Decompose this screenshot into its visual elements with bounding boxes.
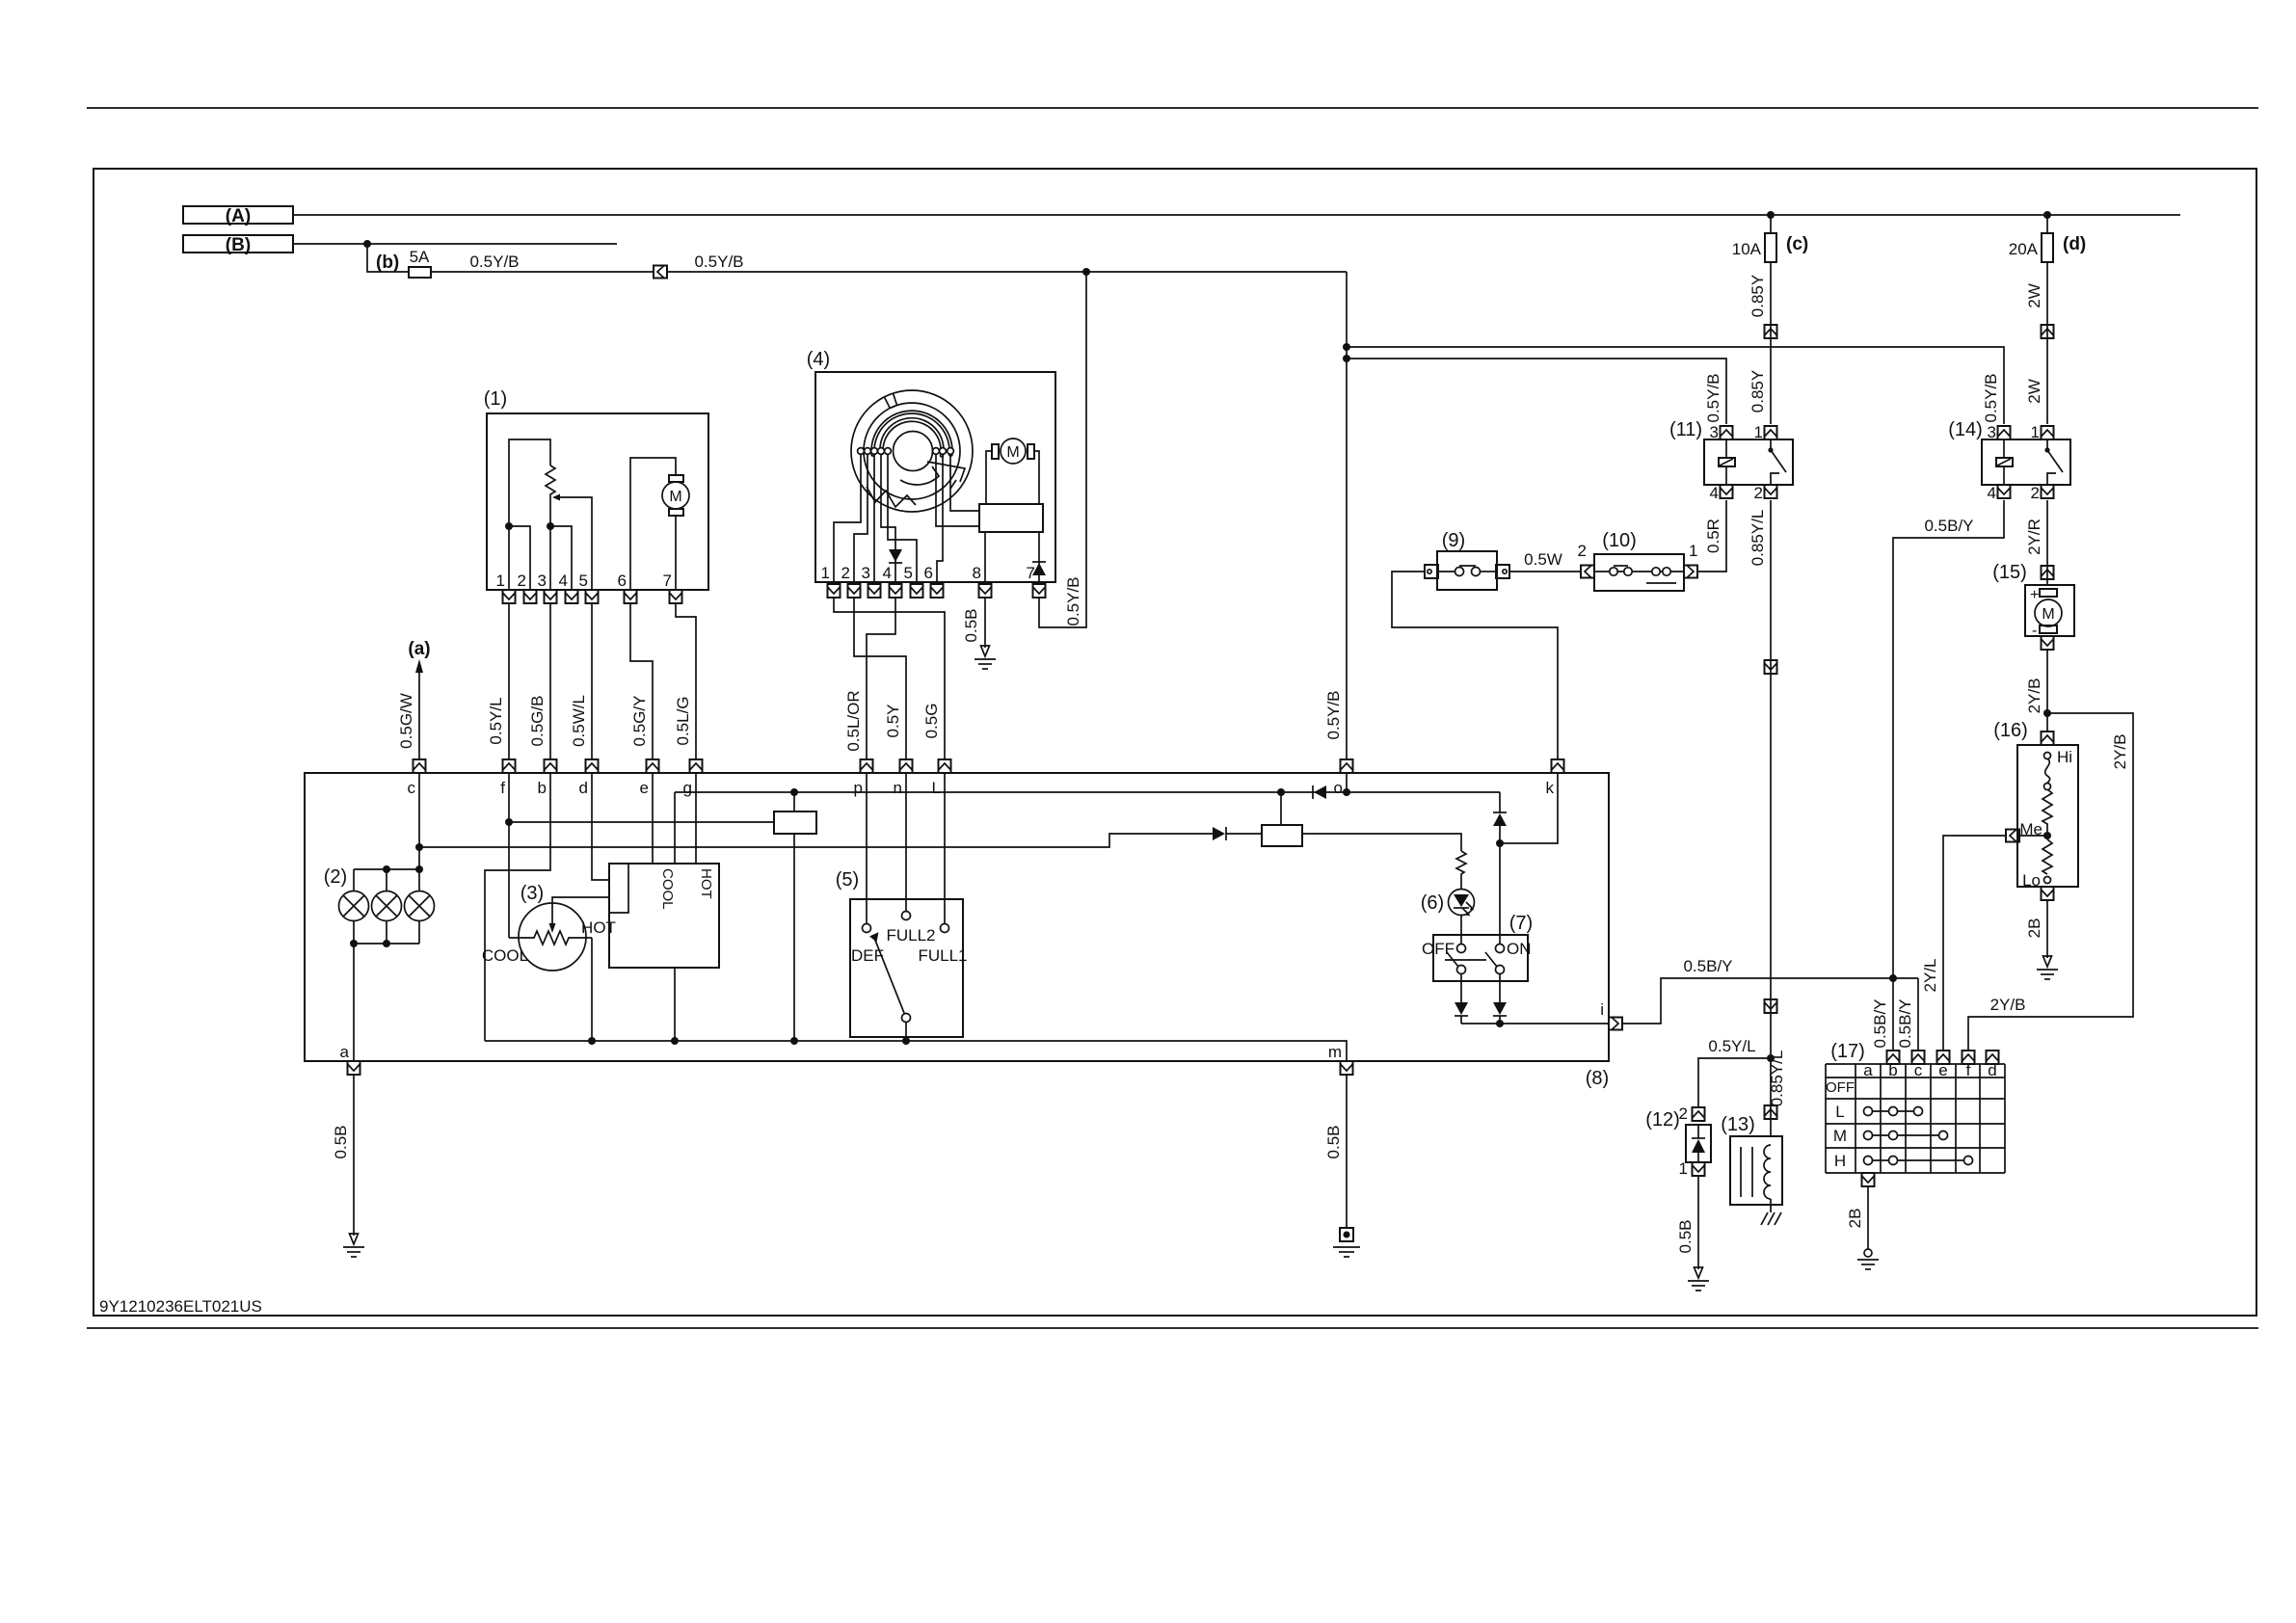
svg-text:(3): (3) [521,883,544,904]
svg-text:(d): (d) [2063,234,2086,254]
wire 0.5W [1509,571,1581,572]
wire 0.5G pin1 to L [834,598,945,759]
svg-text:(A): (A) [226,206,251,226]
svg-text:a: a [340,1043,350,1061]
svg-text:3: 3 [538,572,547,590]
(8) terminal b connector [545,759,557,773]
(4) terminal 4 [878,448,885,455]
(1) wire motor to pin7 [675,516,677,590]
(1) pin 6 connector [625,590,637,603]
(16) mid contact [2044,784,2051,790]
(4) rotary inner circle [894,432,933,471]
(6) resistor [1456,851,1466,889]
(7) contact OFF top [1457,945,1466,953]
svg-text:3: 3 [1710,423,1719,441]
svg-text:10A: 10A [1732,240,1762,258]
fuse 20A (d) [2009,215,2087,262]
node B source box [183,235,293,255]
component (4) box [815,372,1055,582]
svg-text:g: g [683,779,692,797]
(8) terminal c connector [414,759,426,773]
svg-text:Hi: Hi [2057,748,2072,766]
junction 0.5Y/B / pin7 riser [1082,268,1090,276]
svg-text:0.5W: 0.5W [1524,550,1562,569]
(3) resistor [509,931,592,945]
connector 0.85Y/L mid [1765,999,1777,1013]
(4) pin 4 connector [890,584,902,598]
wire 0.5B (12) to ground [1697,1176,1699,1269]
wire 2Y/B branch to f column [1968,713,2133,1051]
svg-text:7: 7 [1027,564,1035,582]
(4) terminal 8 [948,448,954,455]
(16) Hi contact [2044,748,2073,766]
svg-text:COOL: COOL [659,868,676,910]
svg-text:(7): (7) [1509,913,1533,934]
svg-text:0.5R: 0.5R [1704,519,1722,553]
(2) lamp bottom bus [354,943,419,945]
(4) wire terminal5 to pin5 [888,454,917,582]
(17) d top connector [1987,1051,1999,1064]
(2) lamp stubs [354,869,419,944]
diode to resistor block [1213,827,1226,840]
(4) pin 2 connector [848,584,861,598]
fuse 5A [409,248,431,278]
(4) wire motor right to pin7 branch [1034,451,1039,504]
ground (13) slashes [1761,1212,1781,1225]
(7) contact ON bottom [1496,966,1505,974]
svg-text:0.5G: 0.5G [922,704,941,739]
wire 0.5G/Y pin6 to e [630,603,653,759]
(1) motor M [662,475,689,516]
diode ON bottom [1493,1002,1507,1016]
junction 0.5B/Y at b column [1889,974,1897,982]
svg-text:-: - [2032,623,2037,639]
component (7) box [1433,935,1528,981]
(8) terminal f connector [503,759,516,773]
wire 0.5L/OR pin4 to p [867,598,895,759]
svg-text:3: 3 [862,564,870,582]
(5) contact FULL1 [941,924,949,933]
relay (11) coil [1719,439,1735,485]
svg-text:0.5B/Y: 0.5B/Y [1683,957,1732,975]
junction bus/relay coil [790,788,798,796]
wire 0.5B/Y riser to relay14 [1893,500,2004,978]
page top rule [87,107,2258,109]
(6) LED [1449,890,1475,917]
(4) wire terminal6 to resistor block [936,454,979,526]
svg-text:0.5Y/B: 0.5Y/B [1064,576,1082,625]
wire net B [293,243,617,245]
(1) wiper arrow to pin5 [552,494,592,591]
(8) wire n drop [905,773,907,899]
wire 2W fuse d to relay14 [2046,262,2048,424]
svg-text:(17): (17) [1830,1041,1865,1062]
(1) wire pin6 to motor [630,458,676,590]
svg-text:(2): (2) [324,866,347,888]
svg-text:k: k [1546,779,1555,797]
(5) contact DEF [863,924,871,933]
diode OFF branch [1455,1002,1468,1016]
(4) terminal 1 [858,448,865,455]
wire diode to block [1226,833,1262,835]
svg-text:b: b [538,779,547,797]
junction A line / fuse c [1767,211,1775,219]
(4) pin 7 connector [1033,584,1046,598]
(4) wire block to pin7 [1038,532,1040,582]
wire LED to OFF contact [1460,916,1462,945]
svg-text:0.5G/W: 0.5G/W [397,693,415,749]
svg-text:2Y/R: 2Y/R [2025,519,2043,555]
junction riser/relay11 branch [1343,355,1350,362]
(16) thermal fuse squiggle [2045,758,2050,784]
(8) junction f branch [505,818,513,826]
(17) c top connector [1912,1051,1925,1064]
junction lamp bus c [415,865,423,873]
(4) wire terminal2 to pin2 [854,454,868,582]
(4) terminal 5 [885,448,892,455]
svg-text:M: M [2042,606,2054,623]
wire 0.5B pin8 to ground [984,598,986,648]
component (5) box [850,899,963,1037]
wire c column drop [1917,978,1919,1051]
(4) pin 5 connector [911,584,923,598]
wire (9) to k [1392,572,1558,759]
(16) Me tap [2019,820,2051,839]
svg-text:e: e [640,779,649,797]
(1) wire resistor to pin3 [549,497,551,590]
ground (12) [1688,1267,1709,1290]
relay (14) pin2 connector [2042,485,2054,498]
(4) pin 3 connector [868,584,881,598]
relay (14) coil [1996,439,2013,485]
relay (11) box [1704,439,1793,485]
wire 0.5B m to ground [1346,1075,1348,1228]
svg-text:1: 1 [1679,1159,1688,1178]
(1) pin 1 connector [503,590,516,603]
svg-text:(8): (8) [1586,1068,1609,1089]
svg-text:4: 4 [1710,484,1719,502]
svg-text:2: 2 [518,572,526,590]
(4) rotary notch [884,393,896,408]
svg-text:2: 2 [1578,542,1587,560]
(17) bottom connector a [1862,1173,1875,1186]
fuse 10A (c) [1732,215,1808,262]
relay (11) pin2 connector [1765,485,1777,498]
(17) f top connector [1962,1051,1975,1064]
(4) terminal 6 [933,448,940,455]
(1) resistor [546,466,555,497]
svg-text:0.5G/B: 0.5G/B [528,696,547,747]
svg-text:20A: 20A [2009,240,2039,258]
svg-text:0.5B/Y: 0.5B/Y [1896,998,1914,1048]
(17) e top connector [1937,1051,1950,1064]
svg-text:0.5Y: 0.5Y [884,705,902,738]
wire 0.5G/B pin3 to b [549,603,551,759]
relay (14) switch [2044,439,2063,485]
svg-text:1: 1 [496,572,505,590]
(8) wire L drop [944,773,946,899]
(1) pin 7 connector [670,590,682,603]
junction on B wire [363,240,371,248]
(8) wire k route [1500,773,1558,843]
svg-text:5: 5 [904,564,913,582]
(15) motor [2030,587,2062,639]
(3) dial circle [519,903,586,971]
svg-text:2Y/B: 2Y/B [2111,734,2129,770]
svg-text:(4): (4) [807,349,830,370]
component (9) box [1437,551,1497,590]
wire OFF bottom [1460,973,1462,1002]
svg-text:L: L [1835,1103,1844,1121]
svg-text:(13): (13) [1721,1114,1755,1135]
(2) lamp top bus [354,868,419,870]
svg-text:(10): (10) [1602,530,1637,551]
svg-text:3: 3 [1988,423,1996,441]
svg-text:2: 2 [2031,484,2040,502]
svg-text:2B: 2B [2025,918,2043,939]
(8) wire c branch [419,834,1213,847]
(16) top connector [2042,732,2054,745]
(4) wire terminal3 to pin3 [873,454,875,582]
(8) wire b route [485,773,550,1041]
junction bus/control unit [671,1037,679,1045]
(12) pin1 connector [1679,1159,1705,1178]
(16) bottom connector [2042,887,2054,900]
(3) wire hot side down [591,938,593,1041]
wire 0.5Y pin2 to n [854,598,906,759]
svg-text:ON: ON [1507,940,1532,958]
(12) pin2 connector [1679,1104,1705,1123]
wire 0.5Y/L pin1 to f [508,603,510,759]
(9) right connector [1496,565,1509,578]
(4) rotary lower arc hook [900,466,939,485]
(4) rotary arc inner pair [880,418,944,457]
(4) rotary switch ring [864,403,960,499]
wire 2Y/B motor down [2046,650,2048,732]
wire 2Y/L Me to e column [1943,836,2006,1051]
junction k/ON [1496,839,1504,847]
junction bus/(5) [902,1037,910,1045]
(4) wire motor left to block [986,451,992,504]
(10) left connector [1581,566,1594,578]
wire 0.5Y/B to corner [667,271,1347,273]
wire block top feed [1280,792,1282,825]
wire (13) to ground [1770,1199,1772,1212]
relay (14) pin3 connector [1998,426,2011,439]
junction lamp bottom [350,940,358,947]
(7) blades and link [1445,952,1497,967]
(8) wire g drop [695,773,697,864]
junction 2Y/B [2043,709,2051,717]
wire 0.85Y fuse c to relay11 [1770,262,1772,424]
wire control unit to bottom bus [674,968,676,1041]
(7) contact OFF bottom [1457,966,1466,974]
component (17) table [1826,1064,2005,1173]
wire ON bottom [1499,973,1501,1002]
(12) diode [1692,1125,1705,1162]
component (8) panel box [305,773,1609,1061]
wire diode to junction [1499,826,1501,945]
svg-text:4: 4 [883,564,892,582]
(1) wire to pin2 [509,526,530,590]
svg-text:(12): (12) [1645,1109,1680,1131]
svg-text:HOT: HOT [581,918,616,937]
drawing frame border [93,169,2256,1316]
junction 0.85Y/L / 0.5Y/L [1767,1054,1775,1062]
(10) right connector [1684,566,1697,578]
svg-text:i: i [1600,1000,1604,1019]
junction riser/relay14 branch [1343,343,1350,351]
svg-text:HOT: HOT [698,868,714,899]
(8) junction c branch [415,843,423,851]
wire 0.85Y/L relay11 pin2 down [1770,500,1772,1136]
(8) terminal a connector [348,1061,360,1075]
connector 2Y/R [2042,566,2054,579]
svg-text:4: 4 [559,572,568,590]
(1) wire to pin4 [550,526,572,590]
(8) terminal o connector [1341,759,1353,773]
(4) pin 8 connector [979,584,992,598]
svg-text:M: M [1006,444,1019,461]
svg-text:c: c [408,779,416,797]
svg-text:+: + [2030,587,2039,603]
(1) junction pin3/pin4 [547,522,554,530]
wire 0.5G/W with arrow to (a) [415,659,423,759]
(4) rotary arc outer pair [871,411,952,456]
svg-text:f: f [500,779,505,797]
(8) terminal k connector [1552,759,1564,773]
junction bus/coil [790,1037,798,1045]
svg-text:1: 1 [1689,542,1697,560]
wire 0.5L/G pin7 to g [676,603,696,759]
wire coil top feed [793,792,795,811]
svg-text:6: 6 [618,572,627,590]
(1) pin 2 connector [524,590,537,603]
svg-text:4: 4 [1988,484,1996,502]
svg-text:d: d [579,779,588,797]
(3) wiper arrow [549,897,610,933]
svg-text:o: o [1334,779,1343,797]
(16) Lo contact [2022,871,2050,890]
svg-text:OFF: OFF [1826,1079,1855,1096]
(8) wire f branch to coil [509,821,774,823]
svg-text:0.5L/G: 0.5L/G [674,696,692,745]
(1) pin 5 connector [586,590,599,603]
(5) wire common to bus [905,1022,907,1041]
(4) pin 6 connector [931,584,944,598]
svg-text:7: 7 [663,572,672,590]
relay (11) pin1 connector [1765,426,1777,439]
(4) terminal 3 [871,448,878,455]
relay (14) pin4 connector [1998,485,2011,498]
(8) terminal e connector [647,759,659,773]
lamp L2 [372,891,402,921]
relay (14) box [1982,439,2070,485]
(4) rotary wedge [927,462,965,489]
svg-text:(b): (b) [376,253,399,273]
(8) wire d route [592,773,609,880]
(8) wire c drop [418,773,420,869]
wire net A bus [293,214,2180,216]
(4) terminal 2 [865,448,871,455]
svg-text:0.5B: 0.5B [1324,1126,1343,1159]
svg-text:5: 5 [579,572,588,590]
(4) rotary switch outer circle [851,390,973,512]
svg-text:2Y/B: 2Y/B [1990,996,2026,1014]
junction bus/o [1343,788,1350,796]
(5) interior stubs [867,899,945,923]
component (15) box [2025,585,2074,636]
svg-text:M: M [1833,1127,1847,1145]
ground (17) [1857,1249,1879,1269]
(8) wire o drop [1346,773,1348,792]
(5) common contact [902,1014,911,1023]
(16) Me connector [2006,830,2019,842]
(8) dropping resistor block [1262,825,1302,846]
svg-text:0.5W/L: 0.5W/L [570,695,588,747]
relay (11) switch [1768,439,1786,485]
(8) terminal p connector [861,759,873,773]
wire b column drop [1892,978,1894,1051]
(8) terminal d connector [586,759,599,773]
wire branch to relay14 pin3 [1347,347,2004,424]
component (10) box [1594,554,1684,591]
svg-text:(15): (15) [1992,562,2027,583]
wire 0.5Y/L to (12) [1698,1058,1771,1107]
svg-text:L: L [932,779,941,797]
(15) bottom connector [2042,636,2054,650]
(8) internal bus o-line [675,791,1500,793]
wire b drop [367,244,409,272]
wire coil to bottom bus [793,834,795,1041]
svg-text:Lo: Lo [2022,871,2041,890]
svg-text:(14): (14) [1948,419,1983,440]
connector 2W [2042,325,2054,338]
(8) relay coil block [774,811,816,834]
svg-text:FULL2: FULL2 [886,926,935,945]
svg-text:FULL1: FULL1 [918,946,967,965]
svg-text:8: 8 [973,564,981,582]
svg-text:1: 1 [1754,423,1763,441]
(17) b top connector [1887,1051,1900,1064]
wire i to 0.5B/Y [1622,978,1918,1024]
(4) pin 1 connector [828,584,841,598]
svg-text:n: n [894,779,902,797]
(4) wire terminal7 to pin6 [937,454,943,582]
connector on 0.5Y/B wire [654,266,667,279]
(8) terminal i connector [1609,1018,1622,1030]
(8) terminal m connector [1341,1061,1353,1075]
wire 0.5Y/B from fuse [431,271,654,273]
svg-text:1: 1 [2031,423,2040,441]
(8) internal ground bus [485,1041,1347,1061]
(7) contact ON top [1496,945,1505,953]
(5) contact FULL2 [902,912,911,920]
node A source box [183,206,293,226]
svg-text:0.5Y/B: 0.5Y/B [469,253,519,271]
(4) diode at pin7 [1032,562,1046,575]
svg-text:(5): (5) [836,869,859,891]
(4) wire terminal4 to pin4 [881,454,895,582]
svg-text:0.5B/Y: 0.5B/Y [1871,998,1889,1048]
svg-text:H: H [1834,1152,1846,1170]
(17) M row contacts [1864,1131,1948,1140]
relay (11) pin3 connector [1721,426,1733,439]
wire lamps to a [353,944,355,1061]
svg-text:2W: 2W [2025,283,2043,308]
junction bus/(3) [588,1037,596,1045]
svg-text:(c): (c) [1786,234,1808,254]
